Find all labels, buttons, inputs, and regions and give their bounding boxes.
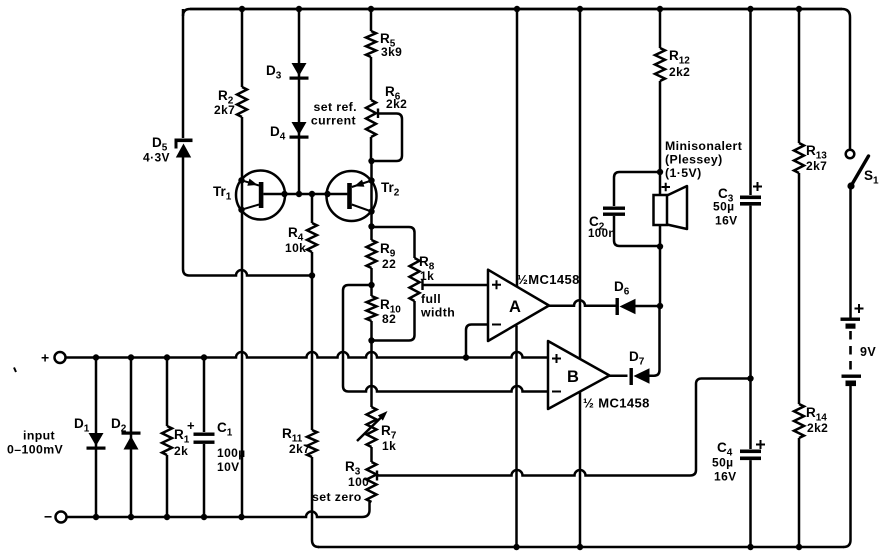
transistor Tr2 [327, 171, 377, 221]
wire R12 branch [659, 9, 662, 48]
transistor Tr1 [236, 171, 285, 220]
wire R4 to R11 [311, 252, 314, 430]
svg-text:set zero: set zero [312, 490, 362, 504]
wire C3 branch [749, 9, 752, 195]
wire R5 to R6 [370, 57, 373, 100]
wire R6 to Tr2 emitter [370, 137, 373, 161]
svg-text:4·3V: 4·3V [143, 151, 170, 165]
wire D7 to alarm node [650, 306, 660, 376]
svg-text:22: 22 [382, 257, 396, 271]
node dots on negative input rail [93, 514, 99, 520]
node Tr2 collector to R9-R8 split [368, 223, 374, 229]
node R4-D5-R11 junction [309, 272, 315, 278]
sounder LS1 Minisonalert [654, 195, 668, 225]
wire negative input rail [67, 502, 370, 517]
wire C4 to bottom rail [749, 460, 752, 547]
label battery plus [855, 304, 864, 313]
svg-text:82: 82 [382, 312, 396, 326]
wire R12 to sounder [659, 81, 662, 195]
wire C2 top loop [614, 172, 660, 206]
svg-text:2k7: 2k7 [214, 103, 235, 117]
resistor R5 [366, 31, 376, 57]
resistor R14 [794, 404, 804, 438]
label op-amp B minus input [552, 391, 561, 393]
wire R3 wiper to C4 node [377, 379, 751, 476]
resistor R7 variable [367, 407, 377, 447]
wire C3 to C4 [749, 206, 752, 449]
resistor R9 [367, 240, 377, 268]
node dots on bottom rail [513, 544, 519, 550]
wire D3 D4 branch [298, 9, 301, 194]
wire op-amp supply line V+ B [579, 9, 582, 359]
svg-text:3k9: 3k9 [381, 45, 402, 59]
wire Tr2 vertical through circle [370, 161, 373, 227]
resistor R8 full width [410, 258, 420, 301]
svg-text:2k7: 2k7 [289, 442, 310, 456]
svg-text:9V: 9V [860, 345, 876, 359]
battery BT1 9V [841, 318, 861, 321]
op-amp U1A [488, 270, 549, 341]
wire R3 wiper tick [376, 471, 378, 481]
wire R7 to R3 [370, 447, 373, 462]
resistor R6 set ref current [366, 100, 376, 137]
resistor R3 set zero [367, 462, 377, 502]
wire positive input rail [66, 352, 549, 358]
capacitor C1 [194, 433, 215, 436]
wire R6 wiper loop [372, 114, 403, 162]
wire R1 branch [166, 358, 169, 518]
node Tr1 emitter junction [238, 177, 244, 183]
wire bottom supply rail [318, 546, 844, 549]
resistor R12 [655, 48, 665, 81]
terminal + input [55, 352, 66, 363]
svg-text:10V: 10V [217, 460, 240, 474]
wire R2 branch [241, 9, 244, 87]
switch S1 [846, 150, 855, 159]
svg-text:+: + [41, 350, 50, 366]
node dots on positive input rail [93, 354, 99, 360]
node D6 junction [657, 303, 663, 309]
node sounder bottom junction [657, 243, 663, 249]
svg-text:50µ: 50µ [712, 456, 733, 470]
wire op-amp A - input feedback [466, 325, 488, 358]
svg-text:2k2: 2k2 [807, 421, 828, 435]
svg-text:100n: 100n [588, 228, 616, 240]
svg-text:½MC1458: ½MC1458 [517, 272, 580, 287]
svg-text:2k: 2k [174, 444, 188, 458]
wire R10 to R7 [370, 321, 373, 407]
op-amp U1B [548, 341, 610, 409]
svg-text:+: + [187, 418, 195, 433]
wire battery to bottom rail [844, 386, 851, 547]
wire R4 branch [311, 194, 314, 223]
label C3 plus [753, 182, 762, 191]
resistor R13 [794, 143, 804, 173]
wire R8 wiper tick [421, 280, 423, 290]
diode D1 [89, 433, 104, 446]
resistor R1 [162, 426, 172, 455]
node sounder top junction [657, 169, 663, 175]
wire C1 branch [203, 358, 206, 518]
wire R8 wiper to op-amp A + input [423, 284, 489, 287]
svg-text:input: input [23, 429, 55, 443]
wire op-amp supply line V- B [579, 392, 582, 547]
svg-text:2k7: 2k7 [806, 159, 827, 173]
node C4 top junction [747, 375, 753, 381]
diode D7 [630, 368, 633, 385]
node R9-R10 junction [368, 282, 374, 288]
svg-text:16V: 16V [714, 470, 737, 484]
resistor R11 [307, 430, 317, 457]
resistor R4 [307, 223, 317, 252]
svg-text:2k2: 2k2 [386, 97, 407, 111]
wire base line Tr1-Tr2 [263, 193, 347, 196]
wire R8 top loop [372, 227, 415, 258]
capacitor C3 [740, 196, 761, 200]
svg-text:(Plessey): (Plessey) [665, 153, 723, 167]
node junction dots on top rail [239, 6, 245, 12]
capacitor C4 [740, 450, 761, 454]
diode D4 [292, 122, 307, 135]
node Tr1 collector junction [238, 207, 244, 213]
wire D5 to R4 node [183, 157, 312, 276]
node base line dots [281, 191, 287, 197]
diode D6 [616, 298, 619, 315]
wire R8 bottom loop [372, 301, 415, 341]
wire op-amp supply line V- A [515, 326, 518, 548]
svg-text:2k2: 2k2 [669, 65, 690, 79]
svg-text:set ref.: set ref. [313, 100, 357, 114]
svg-text:−: − [44, 509, 53, 525]
wire R14 to bottom rail [798, 438, 801, 547]
svg-text:0–100mV: 0–100mV [7, 443, 64, 457]
label op-amp B plus input [552, 354, 561, 363]
wire R11 to bottom rail [312, 457, 319, 547]
svg-text:100: 100 [348, 475, 369, 489]
diode D2 [122, 432, 141, 435]
wire op-amp B output [610, 374, 628, 377]
wire R5 branch [370, 9, 373, 31]
svg-text:10k: 10k [285, 241, 306, 255]
svg-text:A: A [509, 298, 521, 316]
wire D6 to alarm node [636, 305, 661, 308]
svg-text:B: B [567, 368, 579, 386]
capacitor C2 [603, 207, 625, 210]
node R10-R8 bottom junction [368, 337, 374, 343]
resistor R2 [237, 87, 247, 117]
svg-text:50µ: 50µ [713, 200, 734, 214]
zener diode D5 [175, 139, 193, 143]
resistor R10 [367, 296, 377, 321]
wire R9 to R10 [370, 268, 373, 296]
label op-amp A minus input [492, 324, 501, 326]
wire R6 wiper tick [377, 109, 379, 119]
svg-text:current: current [311, 114, 356, 128]
svg-text:width: width [420, 306, 455, 320]
svg-text:Minisonalert: Minisonalert [665, 139, 742, 153]
label sounder plus [662, 183, 671, 191]
svg-text:16V: 16V [715, 214, 738, 228]
wire S1 branch [849, 17, 852, 149]
svg-text:½ MC1458: ½ MC1458 [583, 396, 650, 411]
wire R13 to R14 [798, 173, 801, 404]
label C4 plus [756, 440, 765, 449]
wire op-amp supply line V+ A [516, 9, 519, 287]
svg-text:1k: 1k [382, 439, 396, 453]
wire D1 branch [95, 358, 98, 518]
wire sounder bottom [659, 225, 662, 306]
wire D2 branch [130, 358, 133, 518]
wire R13 branch [798, 9, 801, 143]
diode D3 [292, 63, 307, 76]
wire D5 branch upper [182, 9, 185, 138]
node R6 loop junction [368, 158, 374, 164]
wire Tr1 emitter-collector line [241, 117, 244, 517]
wire op-amp A output [549, 300, 616, 306]
node Tr2 emitter junction [368, 177, 374, 183]
terminal - input [56, 512, 67, 523]
stray mark [14, 368, 16, 373]
svg-text:(1·5V): (1·5V) [665, 166, 702, 180]
wire R9 top [370, 227, 373, 241]
label op-amp A plus input [492, 280, 501, 289]
wire S1 to battery [849, 186, 852, 318]
wire top supply rail [183, 9, 850, 17]
wire R9-R10 node to op-amp B - input [343, 285, 548, 392]
svg-text:full: full [421, 292, 441, 306]
node Tr2 collector junction [368, 208, 374, 214]
wire C2 bottom loop [614, 216, 660, 246]
